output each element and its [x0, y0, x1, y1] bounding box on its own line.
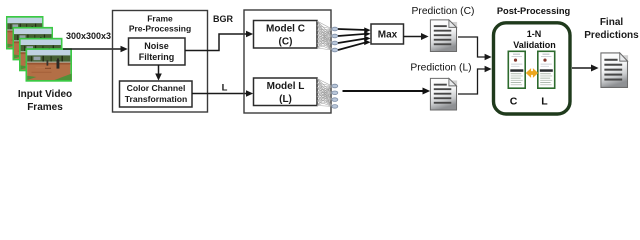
wire: L to Model L [192, 93, 249, 95]
svg-text:(L): (L) [279, 94, 292, 105]
document: Prediction (C) [430, 20, 457, 52]
input video frame 2 [13, 27, 54, 61]
svg-text:Predictions: Predictions [584, 30, 639, 41]
svg-text:(C): (C) [279, 37, 293, 48]
svg-text:Frames: Frames [27, 102, 63, 113]
svg-text:Prediction (L): Prediction (L) [410, 63, 471, 74]
svg-text:Model C: Model C [266, 24, 305, 35]
svg-text:Frame: Frame [147, 14, 173, 24]
svg-text:Noise: Noise [144, 41, 169, 51]
svg-text:Max: Max [378, 30, 398, 41]
svg-text:Filtering: Filtering [139, 52, 175, 62]
svg-text:BGR: BGR [213, 14, 234, 24]
wire: doc L to post-processing [458, 69, 488, 94]
svg-text:L: L [222, 83, 228, 94]
input video frame 1 [6, 16, 44, 50]
fan: Model L to nodes [317, 79, 332, 107]
svg-text:Color Channel: Color Channel [127, 83, 186, 93]
wire: frames to Noise Filtering [63, 48, 124, 50]
wire: post-processing to final doc [572, 67, 594, 69]
svg-text:Model L: Model L [267, 81, 305, 92]
box: Frame Pre-Processing [113, 11, 208, 113]
svg-text:C: C [510, 96, 518, 108]
nodes: Model C output [332, 27, 338, 52]
svg-text:Transformation: Transformation [125, 94, 188, 104]
wires: nodes to Max [338, 29, 367, 50]
document: Final Predictions [601, 53, 628, 88]
svg-text:Post-Processing: Post-Processing [497, 6, 571, 16]
mini list L [538, 51, 555, 88]
orange double arrow [526, 68, 538, 78]
wire: Model L output to Prediction (L) [343, 90, 426, 92]
box: post-processing rounded [494, 23, 571, 114]
wire: Noise Filtering to Color Channel Transformation [158, 65, 160, 77]
box: models outer [244, 10, 331, 113]
mini list C [508, 51, 525, 88]
wire: BGR elbow to Model C [185, 34, 249, 51]
svg-text:Pre-Processing: Pre-Processing [129, 24, 191, 34]
svg-text:1-N: 1-N [527, 29, 542, 39]
svg-text:Input Video: Input Video [18, 89, 72, 100]
document: Prediction (L) [430, 78, 457, 110]
svg-text:300x300x3: 300x300x3 [66, 31, 111, 41]
wire: doc C to post-processing [458, 37, 488, 57]
box: Model L [254, 78, 318, 106]
svg-text:Validation: Validation [513, 40, 556, 50]
box: Max [371, 24, 404, 44]
nodes: Model L output [332, 84, 338, 108]
input video frame 4 [26, 48, 73, 81]
svg-text:L: L [541, 96, 548, 108]
svg-text:Prediction (C): Prediction (C) [412, 6, 475, 17]
box: Color Channel Transformation [120, 81, 193, 107]
box: Model C [254, 21, 318, 49]
svg-text:Final: Final [600, 17, 624, 28]
input video frame 3 [19, 38, 63, 72]
wire: Max to Prediction (C) [404, 36, 425, 38]
box: Noise Filtering [129, 38, 186, 65]
fan: Model C to nodes [317, 21, 332, 50]
